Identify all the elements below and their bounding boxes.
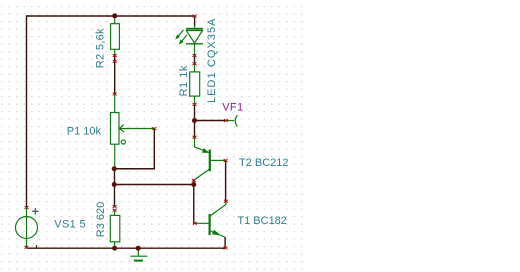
pin R1 1 xyxy=(193,62,197,65)
voltage source VS1 xyxy=(16,208,38,248)
VS1 plus sign xyxy=(32,208,38,214)
pin top rail end / LED1 anode xyxy=(193,15,197,18)
resistor R3 xyxy=(110,210,120,248)
svg-text:T2 BC212: T2 BC212 xyxy=(239,157,289,169)
pin R1 2 xyxy=(193,103,197,106)
svg-text:P1 10k: P1 10k xyxy=(67,125,102,137)
pin T2 base xyxy=(224,159,228,162)
svg-text:VS1 5: VS1 5 xyxy=(54,219,86,231)
wire P1 bottom to R3 top xyxy=(114,169,116,207)
junction R3 / bottom rail xyxy=(112,246,117,251)
LED LED1 xyxy=(175,26,203,56)
svg-text:R1 1k: R1 1k xyxy=(178,65,190,96)
wire T2 collector stub xyxy=(193,180,195,184)
junction T2 collector / T1 base xyxy=(191,182,196,187)
connector VF1 xyxy=(226,115,237,126)
junction divider column / T1 base row xyxy=(112,182,117,187)
svg-text:R2 5,6k: R2 5,6k xyxy=(95,28,107,68)
pin VS1 + xyxy=(25,206,29,209)
wire T1 base drop xyxy=(194,185,195,224)
wire T1 emitter to bottom rail xyxy=(224,237,226,248)
junction node VF1 xyxy=(192,118,197,123)
pin T1 emitter xyxy=(223,247,227,250)
wire top rail xyxy=(27,15,195,17)
wire P1 wiper down-left xyxy=(114,129,154,169)
svg-text:T1 BC182: T1 BC182 xyxy=(237,215,287,227)
pin X marks xyxy=(25,15,229,250)
svg-text:LED1 CQX35A: LED1 CQX35A xyxy=(206,17,218,103)
wire node VF1 down to T2 emitter xyxy=(194,121,196,138)
wire T2 base to T1 collector xyxy=(225,160,227,201)
pin connector VF1 xyxy=(224,119,228,122)
pin P1 wiper xyxy=(152,127,156,130)
junction ground / bottom rail xyxy=(136,246,141,251)
pin T1 collector xyxy=(224,200,228,203)
pin T1 base xyxy=(193,222,197,225)
pin T2 emitter xyxy=(193,136,197,139)
ground xyxy=(130,248,147,260)
wire LED bottom to R1 top xyxy=(194,55,196,63)
wire end above R3 xyxy=(113,205,117,208)
svg-text:R3 620: R3 620 xyxy=(95,202,107,237)
junction dots xyxy=(112,13,197,250)
pin R2 2 xyxy=(113,54,117,57)
pin LED1 cathode xyxy=(193,54,197,57)
junction P1 wiper / divider column xyxy=(112,166,117,171)
wire rail to LED top xyxy=(194,16,196,26)
transistor T2 (PNP) xyxy=(194,137,226,180)
wire node VF1 to connector xyxy=(195,120,227,122)
LED arrows xyxy=(177,30,184,38)
resistor R2 xyxy=(111,16,120,56)
junction top rail / R2 xyxy=(112,13,117,18)
resistor R1 xyxy=(190,64,200,105)
potentiometer P1 xyxy=(111,94,155,168)
wire R1 bottom to node VF1 xyxy=(194,104,196,120)
svg-text:VF1: VF1 xyxy=(222,102,243,114)
pin VS1 - xyxy=(25,246,29,249)
pin P1 top xyxy=(113,93,117,96)
pin T2 collector xyxy=(192,179,196,182)
VS1 minus terminal tick xyxy=(36,245,38,248)
wire left column xyxy=(26,15,28,207)
wire bottom rail xyxy=(27,247,226,249)
wire node row to T2 collector / T1 base xyxy=(114,184,194,186)
transistor T1 (NPN) xyxy=(195,201,226,237)
pin R3 1 xyxy=(113,209,117,212)
wire end below R2 xyxy=(113,60,117,63)
wire R2 bottom to P1 top xyxy=(114,55,116,94)
